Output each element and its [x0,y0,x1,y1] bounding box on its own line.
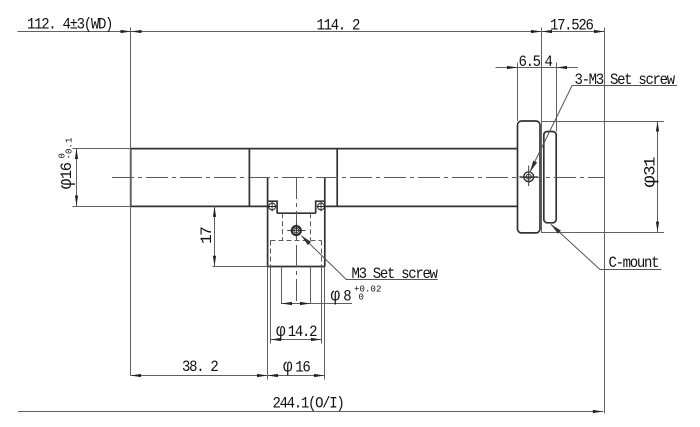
svg-text:244.1(O/I): 244.1(O/I) [273,394,344,413]
svg-text:M3 Set screw: M3 Set screw [352,264,438,283]
svg-text:φ14.2: φ14.2 [276,322,317,342]
svg-text:φ31: φ31 [639,157,660,188]
svg-text:φ16: φ16 [283,358,311,378]
svg-text:-0.1: -0.1 [65,137,75,159]
svg-text:112. 4±3(WD): 112. 4±3(WD) [27,15,112,34]
svg-text:3-M3 Set screw: 3-M3 Set screw [575,70,676,89]
svg-text:C-mount: C-mount [609,253,659,272]
svg-text:17: 17 [198,227,216,244]
svg-text:0: 0 [359,293,365,303]
svg-text:17.526: 17.526 [550,15,594,34]
svg-text:6.5: 6.5 [519,52,542,71]
svg-text:4: 4 [545,52,553,71]
svg-text:38. 2: 38. 2 [182,357,218,376]
svg-text:φ16: φ16 [57,162,77,189]
svg-text:114. 2: 114. 2 [317,16,360,35]
